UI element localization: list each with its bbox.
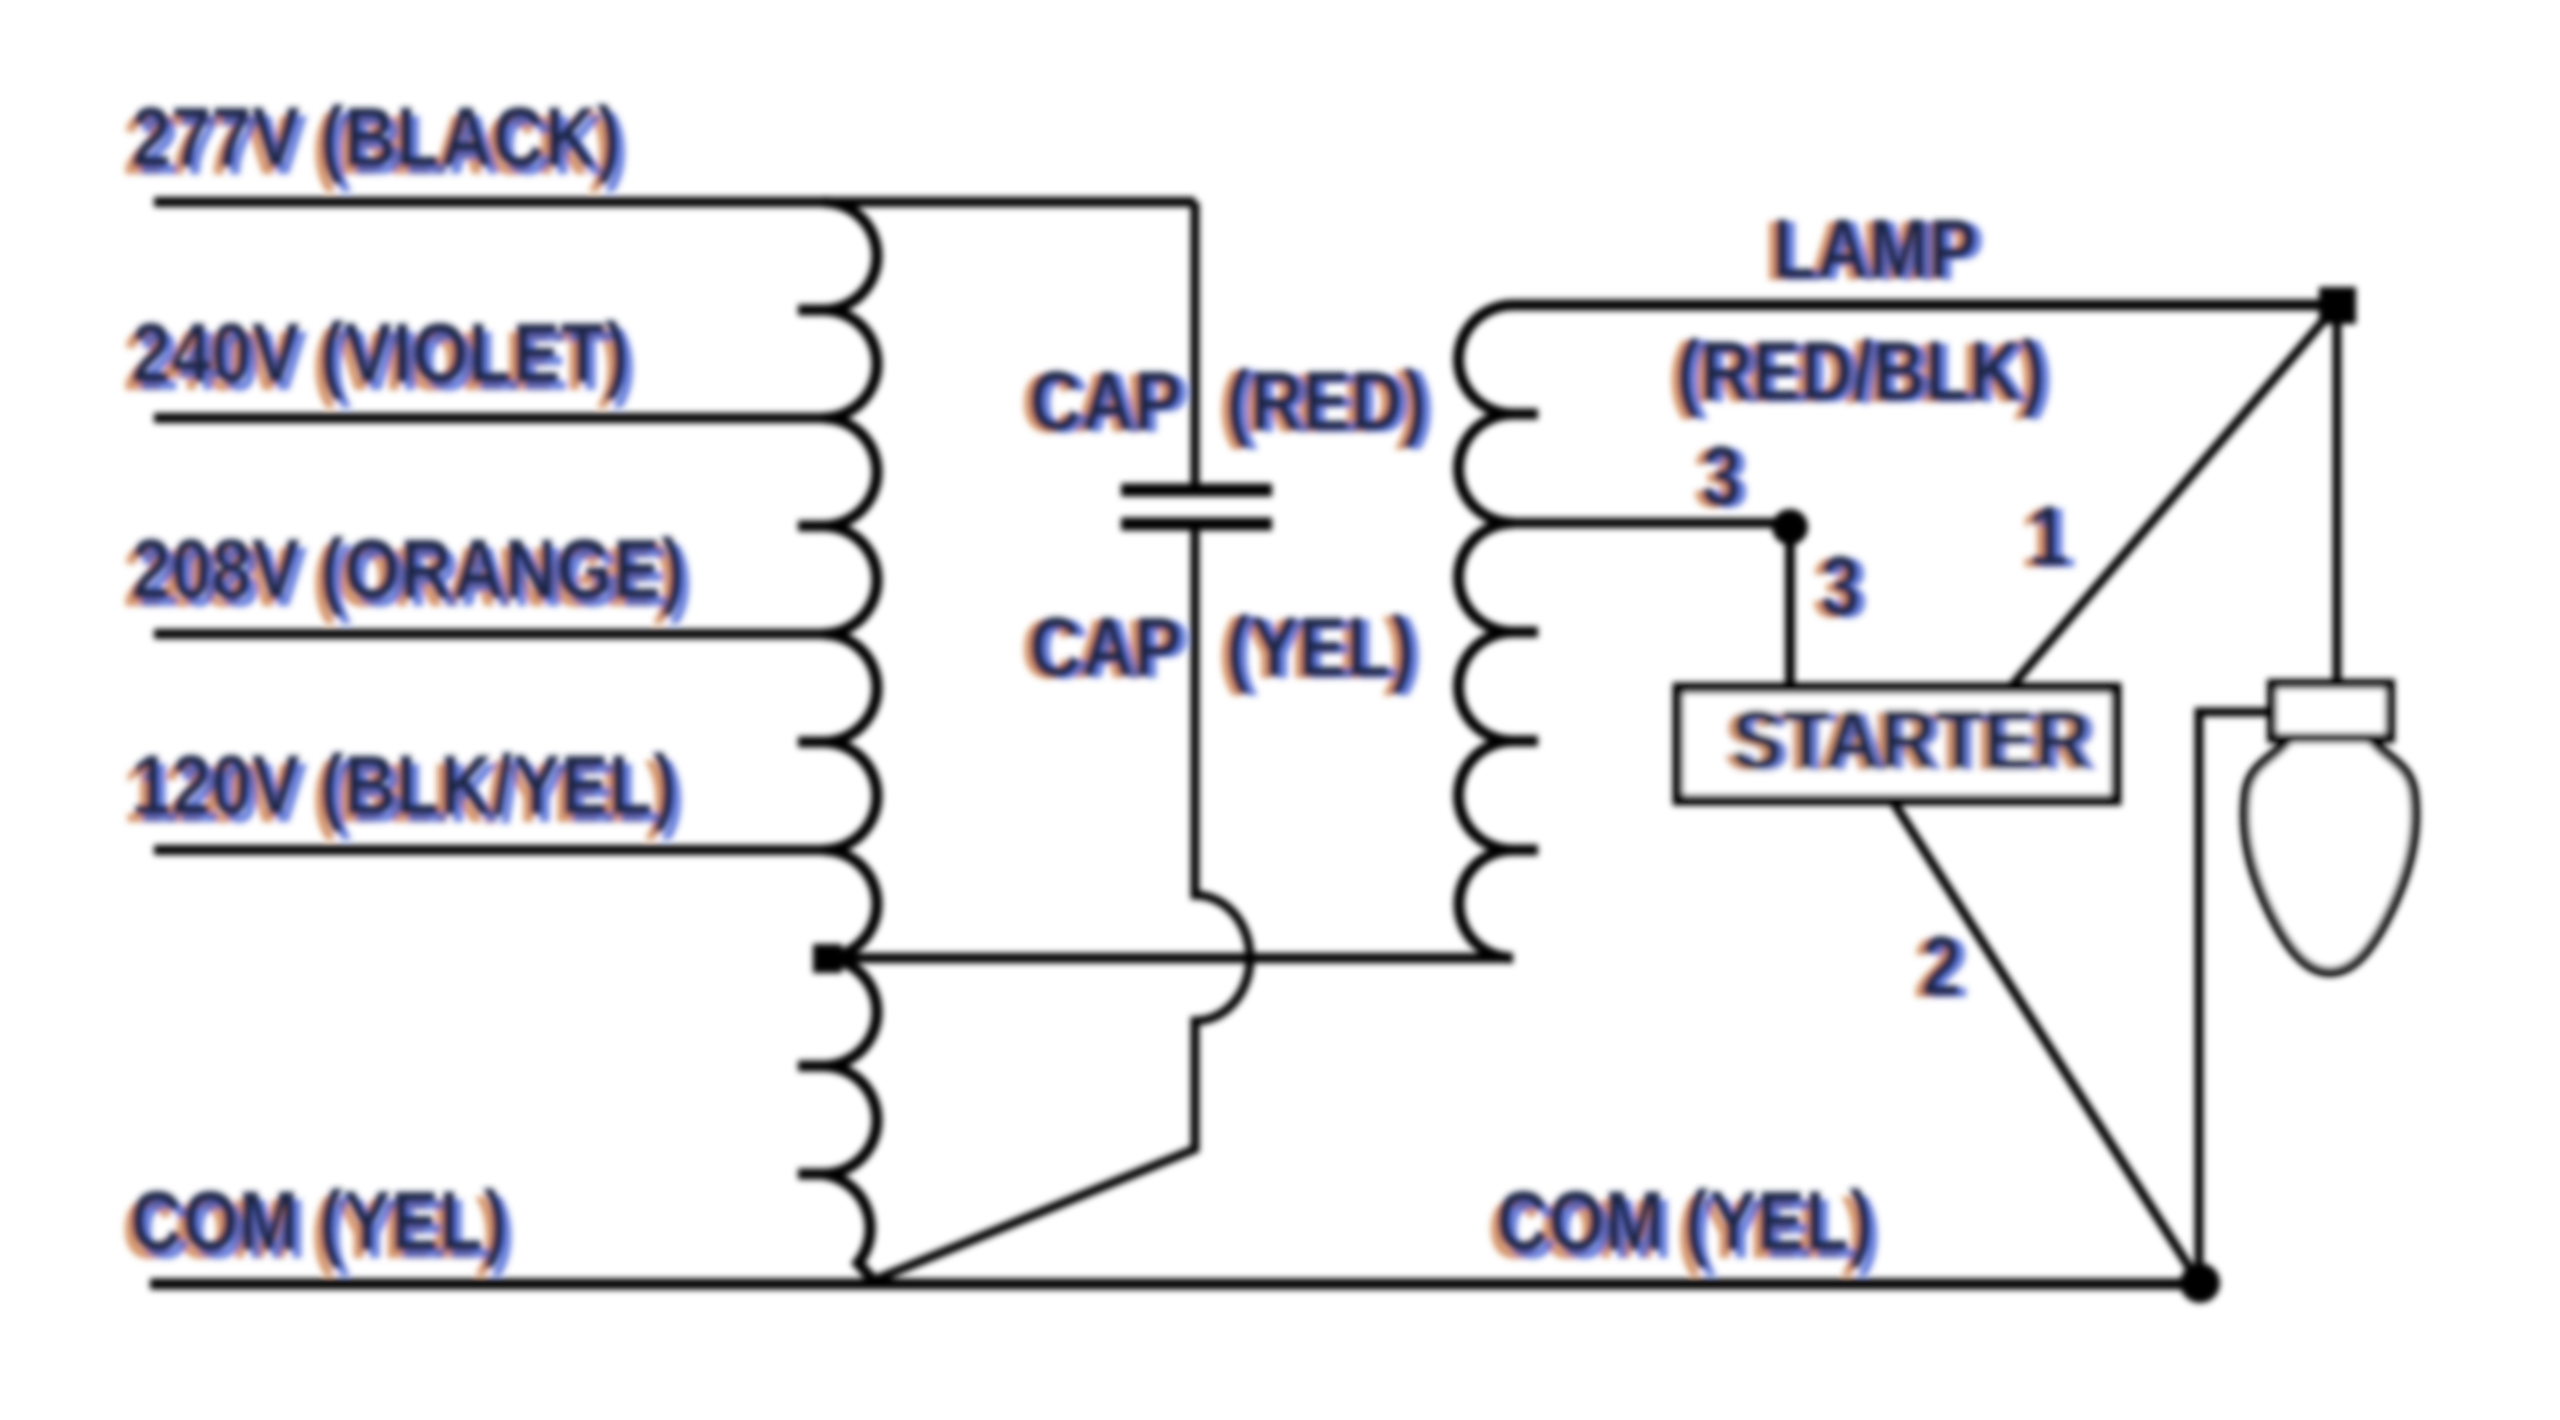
svg-text:CAP: CAP [1029,354,1182,448]
wire 240V tap line [154,413,823,423]
node secondary tap junction [1772,509,1808,545]
inductor secondary winding [1459,305,2338,958]
label 208V (ORANGE) [123,522,693,624]
label CAP (YEL) [1021,600,1423,696]
svg-text:(RED): (RED) [1226,354,1427,448]
svg-text:208V (ORANGE): 208V (ORANGE) [131,522,685,616]
starter box [1678,688,2116,800]
svg-text:STARTER: STARTER [1731,693,2090,787]
node COM right junction [2180,1263,2220,1303]
svg-text:3: 3 [1820,539,1860,633]
svg-text:(RED/BLK): (RED/BLK) [1676,324,2045,418]
svg-text:(YEL): (YEL) [1226,600,1415,694]
svg-text:COM (YEL): COM (YEL) [1496,1174,1873,1268]
label STARTER [1723,693,2098,789]
svg-text:3: 3 [1701,429,1741,523]
wire lamp lead right [2333,305,2342,684]
label pin 1 [2020,489,2076,585]
label COM (YEL) right [1488,1174,1881,1276]
label CAP (RED) [1021,354,1435,450]
label 240V (VIOLET) [123,306,637,408]
wire 208V tap line [154,629,823,639]
label 277V (BLACK) [123,90,629,192]
wire lamp lead left [2199,712,2388,1284]
label LAMP [1764,202,1985,298]
svg-text:2: 2 [1921,919,1961,1013]
wire secondary tap to starter [1513,523,1790,688]
wire 120V tap line [154,845,823,855]
capacitor lead lower with hop over tap wire [872,524,1250,1281]
label pin 2 [1913,919,1969,1015]
svg-text:277V (BLACK): 277V (BLACK) [131,90,621,184]
svg-text:COM (YEL): COM (YEL) [130,1174,507,1268]
capacitor lead upper [1191,202,1200,487]
label COM (YEL) left [122,1174,515,1276]
svg-text:240V (VIOLET): 240V (VIOLET) [131,306,629,400]
inductor primary autotransformer winding [823,202,877,1281]
wire starter pin1 diagonal [2010,305,2337,688]
wire 277V input line [154,197,1195,207]
svg-text:LAMP: LAMP [1772,202,1977,296]
lamp base cap [2272,684,2390,738]
wire secondary coil cusp nubs [1512,414,1538,850]
label pin 3 upper [1693,429,1749,525]
wire primary coil cusp nubs [798,310,824,1174]
lamp bulb envelope [2245,740,2415,972]
label 120V (BLK/YEL) [123,738,685,840]
wire starter pin2 diagonal [1892,800,2200,1284]
wire tap to secondary (crosses under capacitor lead) [828,953,1513,963]
label pin 3 lower [1812,539,1868,635]
capacitor C plates [1121,490,1272,524]
svg-text:120V (BLK/YEL): 120V (BLK/YEL) [131,738,677,832]
node primary tap junction [813,944,842,973]
node lamp top junction [2319,287,2356,324]
svg-text:1: 1 [2028,489,2068,583]
label (RED/BLK) [1668,324,2053,420]
wire COM bottom line [150,1279,2200,1290]
svg-text:CAP: CAP [1029,600,1182,694]
